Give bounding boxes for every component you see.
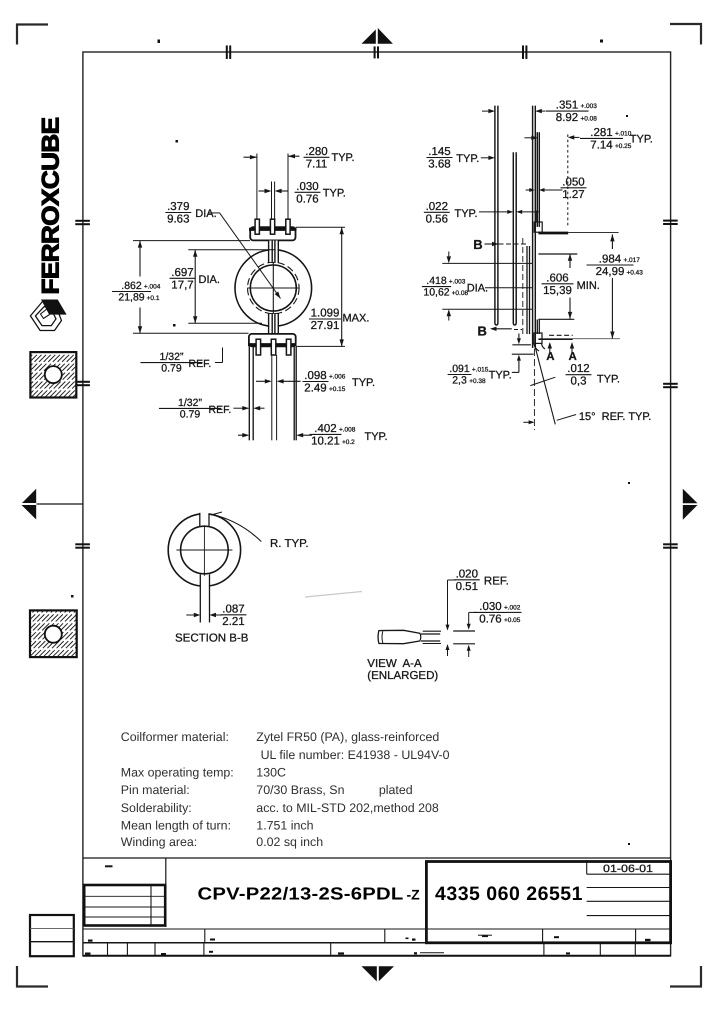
svg-text:0.02 sq inch: 0.02 sq inch [256, 835, 323, 849]
svg-text:17,7: 17,7 [171, 279, 193, 291]
svg-text:.050: .050 [562, 176, 584, 188]
svg-text:acc. to MIL-STD 202,method 208: acc. to MIL-STD 202,method 208 [256, 801, 439, 815]
svg-text:.087: .087 [222, 603, 244, 615]
svg-text:.098: .098 [304, 370, 326, 382]
svg-text:+0.1: +0.1 [147, 295, 160, 302]
svg-text:+.017: +.017 [623, 257, 640, 264]
svg-text:.030: .030 [296, 181, 318, 193]
svg-text:REF.: REF. [484, 576, 509, 588]
svg-text:TYP.: TYP. [630, 133, 653, 145]
svg-text:.280: .280 [305, 146, 327, 158]
svg-text:B: B [473, 237, 482, 252]
svg-text:.145: .145 [428, 146, 450, 158]
svg-text:8.92: 8.92 [556, 112, 578, 124]
svg-text:A: A [569, 351, 577, 363]
svg-text:REF.: REF. [189, 358, 212, 370]
svg-text:+.015: +.015 [472, 367, 489, 374]
svg-text:2,3: 2,3 [452, 375, 467, 387]
svg-text:9.63: 9.63 [167, 214, 189, 226]
svg-text:Solderability:: Solderability: [121, 801, 192, 815]
svg-text:TYP.: TYP. [489, 369, 512, 381]
svg-text:CPV-P22/13-2S-6PDL: CPV-P22/13-2S-6PDL [198, 884, 404, 904]
svg-text:TYP.: TYP. [597, 374, 620, 386]
svg-text:2.21: 2.21 [222, 616, 244, 628]
svg-text:.012: .012 [567, 363, 589, 375]
svg-text:1/32”: 1/32” [178, 397, 202, 409]
svg-text:21,89: 21,89 [118, 292, 144, 304]
svg-text:0.79: 0.79 [161, 363, 182, 375]
svg-text:.402: .402 [314, 423, 336, 435]
svg-text:2.49: 2.49 [304, 383, 326, 395]
svg-text:Max operating temp:: Max operating temp: [121, 766, 234, 780]
svg-text:.418: .418 [426, 275, 447, 287]
svg-text:Mean length of turn:: Mean length of turn: [121, 819, 231, 833]
svg-text:0.56: 0.56 [426, 213, 448, 225]
svg-text:TYP.: TYP. [456, 153, 479, 165]
svg-text:0.76: 0.76 [479, 613, 501, 625]
svg-text:(ENLARGED): (ENLARGED) [367, 670, 438, 682]
svg-text:SECTION B-B: SECTION B-B [175, 633, 249, 645]
svg-text:0.79: 0.79 [180, 408, 201, 420]
svg-text:130C: 130C [256, 766, 286, 780]
svg-text:TYP.: TYP. [323, 188, 346, 200]
svg-text:FERROXCUBE: FERROXCUBE [37, 117, 64, 295]
svg-text:TYP.: TYP. [352, 377, 375, 389]
svg-text:.022: .022 [426, 201, 448, 213]
svg-text:24,99: 24,99 [596, 266, 625, 278]
svg-text:+0.05: +0.05 [504, 617, 521, 624]
svg-text:Pin material:: Pin material: [121, 783, 190, 797]
svg-text:.020: .020 [456, 568, 478, 580]
svg-text:+.008: +.008 [339, 426, 356, 433]
svg-text:.281: .281 [590, 127, 612, 139]
svg-text:+0.38: +0.38 [469, 378, 486, 385]
svg-text:.606: .606 [546, 272, 568, 284]
svg-text:.091: .091 [449, 363, 470, 375]
svg-text:+0.15: +0.15 [329, 386, 346, 393]
svg-text:.697: .697 [171, 267, 193, 279]
svg-text:R. TYP.: R. TYP. [270, 538, 309, 550]
svg-text:0.76: 0.76 [296, 193, 318, 205]
svg-text:MIN.: MIN. [577, 280, 600, 292]
svg-text:TYP.: TYP. [365, 431, 388, 443]
svg-text:.379: .379 [167, 201, 189, 213]
svg-text:+.002: +.002 [504, 604, 521, 611]
svg-text:TYP.: TYP. [455, 208, 478, 220]
svg-text:.030: .030 [479, 601, 501, 613]
svg-text:15,39: 15,39 [543, 285, 572, 297]
svg-text:0.51: 0.51 [456, 581, 478, 593]
svg-text:+0.2: +0.2 [342, 439, 355, 446]
svg-text:A: A [546, 351, 554, 363]
svg-text:+.003: +.003 [580, 103, 597, 110]
svg-text:-Z: -Z [407, 887, 421, 903]
svg-text:Coilformer material:: Coilformer material: [121, 730, 229, 744]
svg-text:UL file number: E41938 - UL94V: UL file number: E41938 - UL94V-0 [261, 748, 450, 762]
svg-text:0,3: 0,3 [571, 376, 587, 388]
svg-text:+.003: +.003 [449, 279, 466, 286]
svg-text:B: B [478, 323, 487, 338]
svg-text:.351: .351 [556, 100, 578, 112]
svg-text:DIA.: DIA. [195, 208, 216, 220]
svg-text:27.91: 27.91 [311, 320, 340, 332]
svg-text:4335 060 26551: 4335 060 26551 [435, 883, 583, 905]
svg-text:.984: .984 [599, 254, 622, 266]
svg-text:REF.: REF. [209, 404, 232, 416]
svg-text:1.27: 1.27 [562, 189, 584, 201]
svg-text:Winding area:: Winding area: [121, 835, 197, 849]
svg-text:+.004: +.004 [144, 284, 161, 291]
svg-text:1.751 inch: 1.751 inch [256, 819, 313, 833]
svg-text:Zytel FR50 (PA), glass-reinfor: Zytel FR50 (PA), glass-reinforced [256, 730, 439, 744]
svg-text:7.11: 7.11 [306, 158, 328, 170]
svg-text:7.14: 7.14 [590, 139, 613, 151]
svg-text:DIA.: DIA. [467, 282, 488, 294]
svg-text:10,62: 10,62 [423, 287, 449, 299]
svg-text:DIA.: DIA. [199, 274, 220, 286]
svg-text:MAX.: MAX. [343, 313, 370, 325]
svg-text:1/32”: 1/32” [160, 351, 184, 363]
svg-text:10.21: 10.21 [311, 435, 340, 447]
svg-text:+.006: +.006 [329, 374, 346, 381]
svg-text:+0.08: +0.08 [580, 116, 597, 123]
svg-text:70/30 Brass, Sn plate: 70/30 Brass, Sn plated [256, 783, 412, 797]
svg-text:VIEW A-A: VIEW A-A [367, 658, 422, 670]
svg-text:01-06-01: 01-06-01 [603, 863, 653, 875]
svg-text:1.099: 1.099 [311, 308, 340, 320]
svg-text:15° REF. TYP.: 15° REF. TYP. [579, 411, 651, 423]
svg-text:3.68: 3.68 [428, 159, 450, 171]
svg-text:TYP.: TYP. [332, 152, 355, 164]
svg-text:.862: .862 [121, 280, 142, 292]
svg-text:+0.43: +0.43 [626, 270, 643, 277]
